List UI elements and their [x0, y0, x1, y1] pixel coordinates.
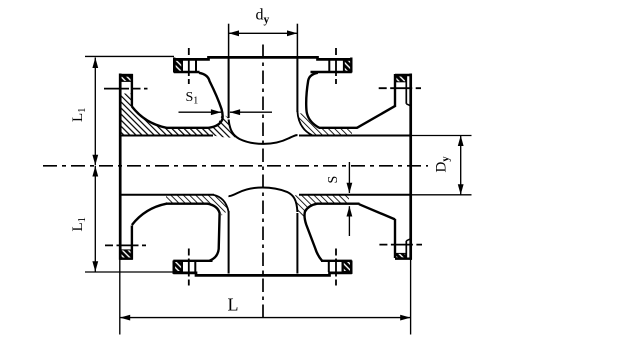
dimension L line and arrows	[120, 315, 411, 321]
left flange hub taper bottom	[132, 204, 167, 225]
inner fillet bottom-left (run bore to bore)	[214, 195, 229, 212]
run pipe bore lines (thin)	[121, 136, 410, 195]
right flange outline	[395, 74, 412, 260]
saddle curve bottom (frown)	[229, 188, 298, 213]
run pipe outer wall lines	[166, 128, 360, 204]
dimension L1 bottom: line and arrows	[92, 166, 98, 272]
top branch outer wall right (chamfer and fillet)	[306, 73, 319, 128]
dimension D_y extension lines	[412, 136, 472, 195]
hatched bolt-rim cap: bottom flange right	[343, 262, 350, 272]
bolt hole centerline bottom flange right	[335, 249, 337, 286]
bottom flange outline	[173, 261, 351, 276]
bottom branch outer wall left (fillet, wall, chamfer)	[207, 204, 220, 261]
hatched bolt-rim cap: top flange left	[175, 60, 182, 71]
hatched bolt-rim cap: left flange bottom	[121, 250, 131, 258]
hatched bolt-rim cap: top flange right	[344, 60, 351, 71]
bolt hole centerline right flange bottom	[379, 244, 422, 246]
dimension L1 bottom: extension line	[85, 271, 173, 273]
dimension S1 arrows	[179, 109, 273, 115]
bolt hole centerline top flange right	[335, 48, 337, 84]
hatched section: bottom-left run wall band and fillet elbow	[166, 195, 228, 216]
dimension d_y line and arrows	[229, 30, 298, 36]
bolt hole centerline top flange left	[188, 48, 190, 84]
bolt hole centerline bottom flange left	[188, 249, 190, 286]
hatched section: top-right run wall band and fillet elbow	[298, 113, 352, 135]
bolt hole centerline left flange top	[104, 88, 148, 90]
hatched bolt-rim cap: bottom flange left	[175, 262, 182, 272]
hatched section: bottom-right run wall band and fillet elbow	[292, 195, 349, 218]
centerline horizontal (run axis, dash-dot)	[43, 165, 428, 167]
hatched bolt-rim cap: left flange top	[121, 76, 131, 81]
bolt hole centerline left flange bottom	[105, 244, 146, 246]
bottom branch outer wall right (fillet, taper, chamfer)	[305, 204, 322, 261]
bolt hole centerline right flange top	[379, 87, 421, 89]
right flange hub taper top	[357, 106, 396, 128]
dimension d_y extension lines	[229, 24, 298, 58]
dimension L1 top: line and arrows	[92, 58, 98, 166]
svg-text:L: L	[228, 295, 239, 315]
svg-text:S: S	[326, 176, 341, 184]
dimension L1 top: extension line	[85, 55, 174, 57]
branch bore lines (thin verticals through flanges)	[229, 58, 298, 274]
hatched section: top-left flange body, hub wedge and run wall band	[121, 94, 132, 136]
saddle curve top (smile)	[229, 120, 298, 144]
inner fillet top-right (bore to run bore)	[297, 111, 312, 135]
top branch outer wall left (chamfer, taper and fillet)	[199, 73, 223, 128]
dimension D_y line and arrows	[458, 136, 464, 195]
dimension S arrows	[347, 162, 353, 236]
hatched bolt-rim cap: right flange bottom	[396, 253, 406, 257]
left flange hub taper top	[132, 107, 167, 128]
right flange hub taper bottom	[359, 204, 395, 219]
left flange outline	[120, 74, 133, 260]
dimension L extension lines (flange face extended)	[120, 260, 411, 335]
top flange outline	[174, 57, 352, 72]
hatched bolt-rim cap: right flange top	[396, 76, 406, 82]
centerline vertical (branch axis, dash-dot)	[262, 45, 264, 320]
